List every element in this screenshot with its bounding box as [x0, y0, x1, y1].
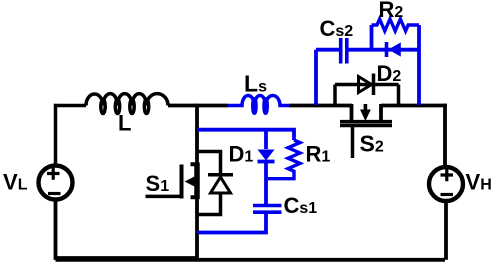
body diode of S1 (triangle up, outline) — [211, 177, 231, 193]
wire: Cs1 bottom return to middle branch — [197, 214, 266, 233]
inductor Ls — [228, 95, 289, 113]
wire: bottom rail piece left — [56, 258, 198, 262]
VL minus sign — [48, 192, 61, 195]
VH plus sign — [441, 169, 454, 182]
transistor S2 gate bar — [340, 124, 392, 127]
wire: bottom rail middle to right corner — [197, 258, 445, 262]
VH minus sign — [441, 193, 454, 196]
svg-text:Ls: Ls — [244, 71, 267, 97]
wire: Cs2 left vertical down to main wire — [314, 50, 318, 105]
svg-text:R2: R2 — [379, 0, 404, 22]
transistor S2 drain lead — [350, 104, 354, 121]
wire: middle vertical branch — [195, 104, 199, 260]
transistor S2 channel bar — [340, 120, 392, 124]
svg-text:D1: D1 — [229, 142, 254, 167]
inductor L — [86, 94, 168, 114]
wire: left vertical from top wire to VL — [54, 104, 58, 164]
wire: Ls to S2 drain — [289, 104, 352, 108]
wire: top-left horizontal from VL to L — [57, 104, 86, 108]
transistor S2 body arrow — [360, 110, 371, 122]
diode D2 (triangle right, outline) — [359, 77, 372, 93]
resistor R1 zigzag — [266, 140, 300, 179]
svg-text:D2: D2 — [377, 61, 402, 86]
VL plus sign — [47, 167, 60, 180]
svg-text:S2: S2 — [360, 131, 384, 157]
wire: R2 loop left vertical — [370, 25, 374, 50]
source VL circle — [39, 166, 73, 200]
source VH circle — [429, 167, 463, 201]
svg-text:L: L — [118, 111, 131, 136]
wire: D2 loop left vertical — [333, 85, 337, 106]
wire: D1 to junction with R1 — [264, 162, 268, 205]
wire: D2 loop top horizontal — [335, 83, 399, 87]
transistor S2 source lead — [379, 104, 383, 121]
transistor S2 gate lead — [351, 126, 355, 158]
wire: S2 source to right corner — [381, 104, 447, 108]
svg-text:S1: S1 — [146, 171, 170, 196]
wire: Cs2 left horizontal — [316, 48, 339, 52]
transistor S1 drain/source ticks — [191, 164, 200, 197]
transistor S2 body arrow stem — [364, 104, 368, 110]
wire: blue snubber top horizontal from middle branch — [197, 130, 294, 140]
capacitor Cs1 plates — [253, 206, 282, 213]
wire: R2 loop right vertical down to main wire — [417, 25, 421, 105]
diode D1 (filled triangle down) — [258, 150, 275, 161]
diode D1 branch wire upper — [264, 129, 268, 149]
svg-text:VL: VL — [3, 170, 28, 195]
capacitor Cs2 plates — [341, 38, 347, 64]
transistor S1 body arrow — [185, 177, 195, 187]
transistor S1 gate bar — [180, 165, 184, 199]
transistor S1 gate lead — [146, 195, 182, 199]
svg-text:R1: R1 — [306, 142, 331, 167]
wire: VH to bottom-right corner — [444, 203, 448, 260]
wire: right vertical from top corner to VH — [443, 104, 447, 165]
wire: VL to bottom-left corner — [56, 202, 198, 259]
resistor R2 zigzag — [372, 19, 420, 31]
diode bar (left) — [385, 42, 389, 57]
wire: S1 body-diode bottom branch — [198, 194, 221, 215]
wire: S1 body-diode top branch — [197, 152, 221, 174]
svg-text:Cs1: Cs1 — [284, 193, 318, 218]
wire: Cs2 right horizontal to R2 loop — [349, 48, 420, 52]
diode D2 cathode bar — [372, 74, 376, 96]
diode in R2 loop (filled triangle left) — [388, 42, 401, 56]
transistor S1 channel thick segment — [194, 163, 200, 199]
wire: L to node A (middle branch) and on to Ls — [168, 104, 228, 108]
svg-text:VH: VH — [466, 170, 492, 195]
wire: D2 loop right vertical — [397, 85, 401, 106]
diode D1 cathode bar — [258, 160, 275, 164]
body diode cathode bar — [208, 173, 233, 177]
svg-text:Cs2: Cs2 — [320, 16, 354, 41]
